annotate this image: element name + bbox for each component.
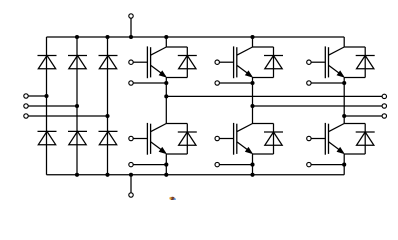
node column 3 on N bus (105, 173, 109, 177)
wire rectifier column 1 (46, 37, 48, 175)
wire freewheel diode D12 vertical (364, 124, 366, 155)
transistor Q5 (upper IGBT leg 3) (325, 46, 344, 78)
wire Q6 emitter to N bus (343, 154, 345, 175)
node leg 2 on P bus (250, 35, 254, 39)
terminal AC input R (24, 94, 28, 98)
wire freewheel diode D10 vertical (273, 124, 275, 155)
wire D12 anode return (344, 153, 365, 155)
transistor Q4 (lower IGBT leg 2) (234, 123, 253, 155)
terminal E2 (aux emitter Q2) (129, 162, 133, 166)
wire E5 lead (311, 82, 344, 84)
terminal E4 (aux emitter Q4) (215, 162, 219, 166)
node P junction (129, 35, 133, 39)
node E6 junction (342, 163, 346, 167)
node E1 junction (164, 81, 168, 85)
wire Q5 collector drop (343, 37, 345, 47)
terminal G1 (gate Q1) (129, 60, 133, 64)
wire N bus (bottom DC- rail) (47, 174, 345, 176)
terminal AC output U (382, 94, 386, 98)
terminal E3 (aux emitter Q3) (215, 81, 219, 85)
diode D2 (rectifier lower arm 1) (38, 131, 57, 144)
wire G3 lead (219, 61, 233, 63)
wire Q4 collector corner to diode (253, 123, 274, 125)
terminal AC output W (382, 114, 386, 118)
wire Q3 collector drop (252, 37, 254, 47)
terminal G5 (gate Q5) (307, 60, 311, 64)
small colored artifact mark (169, 197, 176, 201)
terminal G6 (gate Q6) (307, 136, 311, 140)
wire P terminal lead (130, 19, 132, 38)
wire E2 lead (133, 164, 166, 166)
node column 2 on P bus (75, 35, 79, 39)
node E3 junction (250, 81, 254, 85)
wire Q2 emitter to N bus (165, 154, 167, 175)
wire leg 3 midpoint vertical (343, 77, 345, 124)
terminal N (DC-) (129, 193, 133, 197)
node AC T junction (105, 114, 109, 118)
wire freewheel diode D8 vertical (186, 124, 188, 155)
node AC S junction (75, 104, 79, 108)
terminal E5 (aux emitter Q5) (307, 81, 311, 85)
wire D10 anode return (253, 153, 274, 155)
wire freewheel diode D7 cathode/anode vertical (186, 47, 188, 78)
terminal G3 (gate Q3) (215, 60, 219, 64)
transistor Q2 (lower IGBT leg 1) (147, 123, 166, 155)
wire rectifier column 2 (76, 37, 78, 175)
node leg 1 on N bus (164, 173, 168, 177)
diode D8 (freewheel of Q2) (178, 132, 197, 145)
diode D11 (freewheel of Q5) (356, 56, 375, 69)
wire Q6 collector corner to diode (344, 123, 365, 125)
wire E3 lead (219, 82, 252, 84)
wire AC input S lead (28, 105, 77, 107)
wire E4 lead (219, 164, 252, 166)
wire Q3 collector corner to diode (253, 46, 274, 48)
wire E6 lead (311, 164, 344, 166)
terminal P (DC+) (129, 14, 133, 18)
wire Q1 collector drop (165, 37, 167, 47)
wire AC input R lead (28, 95, 46, 97)
wire Q1 collector corner to diode (166, 46, 187, 48)
wire phase W rail (344, 115, 382, 117)
diode D4 (rectifier lower arm 2) (68, 131, 87, 144)
wire D7 anode return (166, 77, 187, 79)
node column 2 on N bus (75, 173, 79, 177)
wire D8 anode return (166, 153, 187, 155)
node phase U junction (164, 94, 168, 98)
wire Q2 collector corner to diode (166, 123, 187, 125)
wire G6 lead (311, 138, 325, 140)
wire P bus (top DC+ rail) (47, 36, 345, 38)
node E5 junction (342, 81, 346, 85)
terminal G4 (gate Q4) (215, 136, 219, 140)
diode D6 (rectifier lower arm 3) (99, 131, 118, 144)
transistor Q6 (lower IGBT leg 3) (325, 123, 344, 155)
diode D1 (rectifier upper arm 1) (38, 56, 57, 69)
diode D7 (freewheel of Q1) (178, 56, 197, 69)
node phase W junction (342, 114, 346, 118)
node E4 junction (250, 163, 254, 167)
node N junction (129, 173, 133, 177)
wire D9 anode return (253, 77, 274, 79)
wire rectifier column 3 (107, 37, 109, 175)
wire G5 lead (311, 61, 325, 63)
diode D3 (rectifier upper arm 2) (68, 56, 87, 69)
node AC R junction (44, 94, 48, 98)
wire E1 lead (133, 82, 166, 84)
wire D11 anode return (344, 77, 365, 79)
terminal AC input S (24, 104, 28, 108)
wire leg 1 midpoint vertical (165, 77, 167, 124)
wire phase V rail (253, 105, 383, 107)
wire G2 lead (133, 138, 147, 140)
node column 3 on P bus (105, 35, 109, 39)
terminal AC output V (382, 104, 386, 108)
terminal E1 (aux emitter Q1) (129, 81, 133, 85)
node E2 junction (164, 163, 168, 167)
terminal AC input T (24, 114, 28, 118)
wire Q5 collector corner to diode (344, 46, 365, 48)
wire phase U rail (166, 95, 382, 97)
diode D9 (freewheel of Q3) (264, 56, 283, 69)
wire Q4 emitter to N bus (252, 154, 254, 175)
node leg 1 on P bus (164, 35, 168, 39)
wire freewheel diode D9 cathode/anode vertical (273, 47, 275, 78)
wire leg 2 midpoint vertical (252, 77, 254, 124)
node leg 2 on N bus (250, 173, 254, 177)
wire freewheel diode D11 cathode/anode vertical (364, 47, 366, 78)
terminal E6 (aux emitter Q6) (307, 162, 311, 166)
wire G4 lead (219, 138, 233, 140)
terminal G2 (gate Q2) (129, 136, 133, 140)
wire G1 lead (133, 61, 147, 63)
diode D12 (freewheel of Q6) (356, 132, 375, 145)
node phase V junction (250, 104, 254, 108)
diode D10 (freewheel of Q4) (264, 132, 283, 145)
transistor Q1 (upper IGBT leg 1) (147, 46, 166, 78)
transistor Q3 (upper IGBT leg 2) (234, 46, 253, 78)
wire N terminal lead (130, 175, 132, 193)
diode D5 (rectifier upper arm 3) (99, 56, 118, 69)
wire AC input T lead (28, 115, 107, 117)
